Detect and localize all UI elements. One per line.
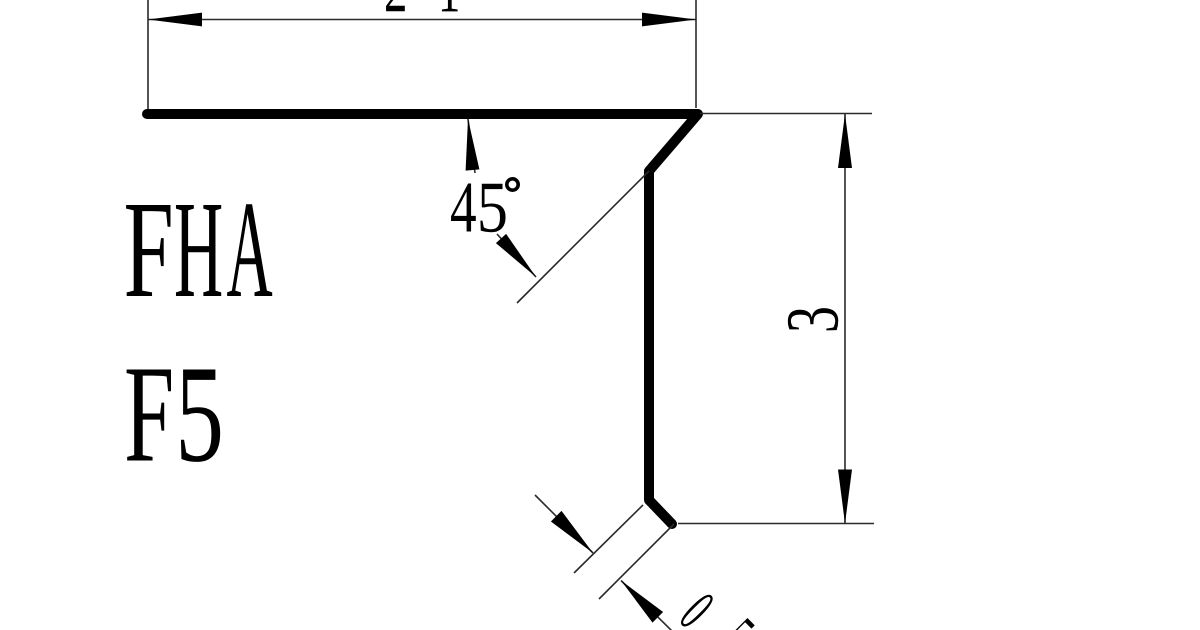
45 deg arrow lower: [496, 234, 536, 277]
dimension text 0.5 (rotated 45, cut off): [677, 591, 755, 630]
hem dim extension line lower (through tip): [599, 524, 674, 599]
extension line left (2 1/4 dim): [147, 0, 149, 109]
dimension text 2 1/4 (cut off at top): [386, 0, 458, 11]
45 deg text: [451, 179, 518, 232]
hem dim leader upper with arrow: [535, 495, 593, 553]
45 degree bevel extension line: [517, 171, 649, 303]
dimension line 2 1/4: [148, 13, 696, 27]
extension line right (2 1/4 dim): [695, 0, 697, 108]
extension line bottom right (3 dim): [678, 523, 874, 525]
dimension line 3 (vertical): [838, 114, 852, 524]
extension line top right (3 dim): [700, 113, 872, 115]
dimension text 3 (rotated): [788, 308, 838, 330]
45 deg arrow up: [466, 119, 480, 173]
hem dim leader lower with arrow: [621, 581, 672, 630]
profile outline (thick flashing section): [147, 114, 698, 524]
hem dim extension line upper (through bend): [574, 505, 643, 573]
label F5: [127, 369, 221, 461]
label FHA: [126, 204, 272, 296]
